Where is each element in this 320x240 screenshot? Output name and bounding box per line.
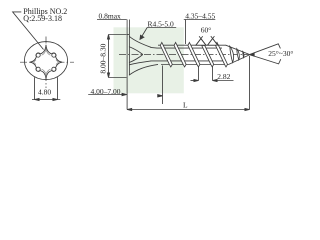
thread blade 4 bbox=[202, 45, 214, 67]
svg-text:Q:2.59-3.18: Q:2.59-3.18 bbox=[23, 14, 62, 23]
green highlight rectangle bbox=[114, 27, 184, 93]
tip thread crescent 2 bbox=[237, 49, 240, 60]
60 degree crest triangle left bbox=[196, 39, 206, 46]
recess profile upper bbox=[129, 47, 143, 55]
tip angle upper line bbox=[250, 44, 281, 55]
0.8max leader underline bbox=[97, 19, 127, 21]
shank top root line bbox=[151, 46, 223, 49]
svg-text:R4.5-5.0: R4.5-5.0 bbox=[148, 19, 175, 28]
recess profile lower bbox=[129, 55, 143, 63]
thread blade 3 bbox=[188, 42, 200, 67]
phillips recess corner circle (top-right) bbox=[52, 53, 56, 57]
tip cone bottom line bbox=[229, 55, 250, 65]
4.35-4.55 underline bbox=[184, 19, 216, 21]
4.00-7.00 right extension line bbox=[162, 66, 164, 105]
thread blade 1 bbox=[160, 42, 172, 67]
svg-text:L: L bbox=[183, 101, 188, 110]
L left arrow bbox=[127, 108, 132, 110]
8.00-8.30 bottom extension line bbox=[109, 77, 127, 79]
screw centerline bbox=[119, 54, 250, 56]
front view vertical centerline bbox=[45, 37, 47, 89]
front view horizontal centerline bbox=[20, 61, 74, 63]
L right arrow bbox=[245, 108, 250, 110]
tip angle lower line bbox=[250, 55, 281, 64]
60 degree crest triangle right bbox=[208, 38, 218, 45]
bugle curve bottom inner (to root line) bbox=[129, 61, 151, 65]
R4.5-5.0 underline bbox=[147, 27, 176, 29]
shank hidden line right (front view) bbox=[57, 77, 59, 99]
8.00-8.30 top arrow bbox=[107, 35, 109, 40]
2.82 right arrow bbox=[213, 79, 218, 81]
bugle curve top bbox=[129, 36, 151, 47]
shank bottom root line bbox=[151, 60, 224, 62]
8.00-8.30 bottom arrow bbox=[107, 73, 109, 78]
svg-text:2.82: 2.82 bbox=[217, 72, 230, 81]
shank top major line bbox=[158, 44, 226, 46]
phillips recess corner circle (bottom-left) bbox=[36, 67, 40, 71]
head rim line bbox=[128, 20, 130, 76]
svg-text:8.00–8.30: 8.00–8.30 bbox=[98, 43, 107, 73]
tip thread crescent 1 bbox=[230, 46, 234, 62]
8.00-8.30 dimension line bbox=[108, 35, 110, 78]
R4.5-5.0 arrow bbox=[140, 35, 144, 39]
thread blade 5 bbox=[216, 42, 228, 67]
4.80 dimension line bbox=[32, 99, 60, 101]
tip thread crescent 3 bbox=[243, 52, 244, 58]
shank hidden line left (front view) bbox=[34, 77, 36, 99]
svg-text:4.35–4.55: 4.35–4.55 bbox=[185, 11, 215, 20]
thread blade 2 bbox=[174, 42, 186, 67]
phillips recess inner shading bbox=[33, 48, 59, 75]
svg-text:4.80: 4.80 bbox=[38, 87, 51, 96]
2.82 left pointer bbox=[191, 80, 199, 82]
L left extension line bbox=[126, 78, 128, 110]
4.35-4.55 extension line bbox=[185, 20, 187, 45]
R4.5-5.0 leader bbox=[140, 28, 147, 40]
4.00-7.00 arrow bbox=[122, 93, 127, 95]
4.00-7.00 underline bbox=[88, 94, 122, 96]
phillips recess corner circle (bottom-right) bbox=[52, 67, 56, 71]
head outline ellipse (front view) bbox=[24, 42, 67, 80]
L dimension line bbox=[127, 109, 249, 111]
tip cone top line bbox=[226, 45, 250, 54]
svg-text:60°: 60° bbox=[201, 25, 212, 34]
shank bottom major line bbox=[161, 64, 229, 66]
4.80 right arrow bbox=[53, 98, 58, 100]
leader line to phillips recess bbox=[13, 12, 44, 50]
phillips recess outline bbox=[30, 45, 62, 79]
phillips recess corner circle (top-left) bbox=[36, 53, 40, 57]
head top cap bbox=[127, 34, 129, 36]
L right extension line bbox=[249, 56, 251, 110]
svg-text:0.8max: 0.8max bbox=[99, 11, 122, 20]
2.82 underline pointer bbox=[213, 80, 234, 82]
svg-text:4.00–7.00: 4.00–7.00 bbox=[91, 87, 121, 96]
4.80 left arrow bbox=[35, 98, 40, 100]
svg-text:25°~30°: 25°~30° bbox=[268, 49, 293, 58]
4.00-7.00 right arrow bbox=[158, 95, 163, 97]
tip arrowhead bbox=[250, 53, 255, 56]
bugle curve bottom (silhouette to crest envelope) bbox=[129, 64, 158, 75]
8.00-8.30 top extension line bbox=[109, 34, 127, 36]
2.82 right extension line bbox=[212, 67, 214, 81]
0.8max extension/head face line bbox=[126, 20, 128, 78]
2.82 left arrow bbox=[194, 79, 199, 81]
2.82 left extension line bbox=[198, 67, 200, 81]
